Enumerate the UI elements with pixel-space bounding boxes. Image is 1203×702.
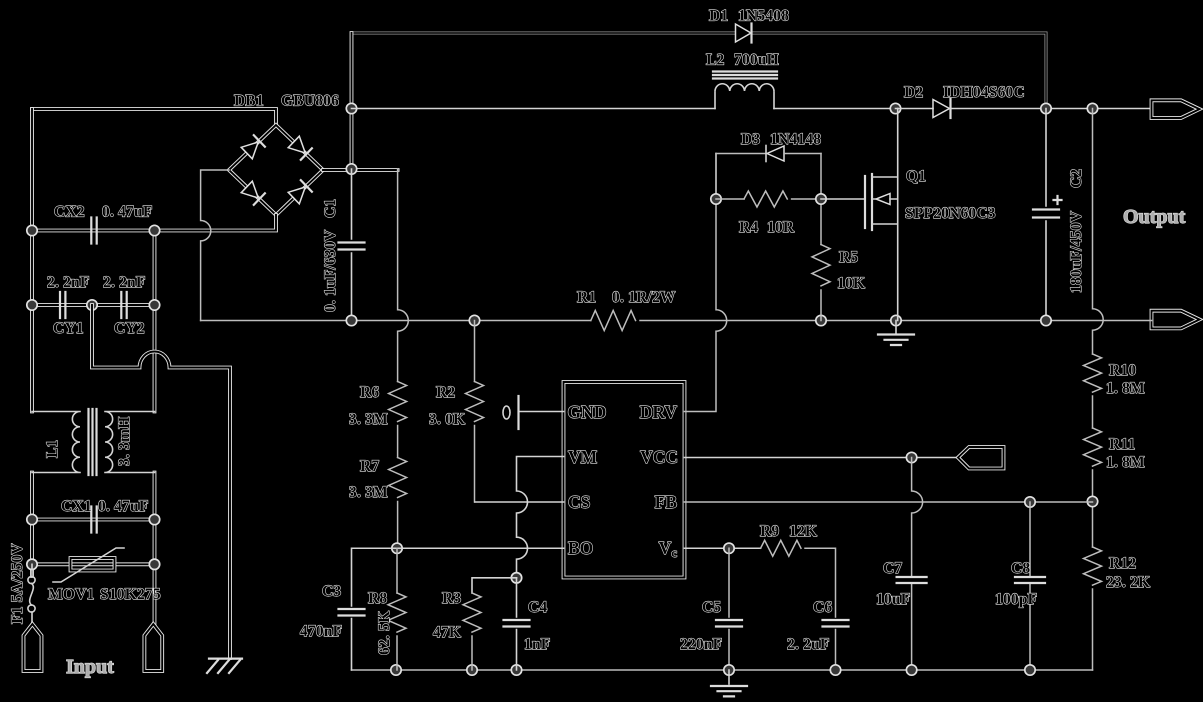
capacitor CY2 (121, 292, 126, 318)
wire R9 to C6 (805, 548, 836, 617)
wire R8 top (396, 548, 398, 593)
label SPP20N60C3 (905, 205, 996, 222)
wire VM net (517, 457, 564, 578)
node CX2 right (149, 225, 159, 235)
label R3 value (433, 624, 461, 641)
label L1 (rotated) (44, 440, 61, 459)
ground bar at GND pin (503, 396, 519, 429)
svg-text:3. 3M: 3. 3M (349, 411, 388, 428)
label C5 value (680, 636, 722, 653)
bridge diode (bottom-right) (288, 180, 312, 204)
label R11 value (1106, 454, 1145, 471)
svg-text:0. 1R/2W: 0. 1R/2W (612, 289, 676, 306)
wire C7 branch (912, 458, 923, 671)
label R1 value (612, 289, 676, 306)
svg-text:100pF: 100pF (995, 591, 1037, 608)
wire drain to D2 (896, 108, 934, 110)
label F1 5A/250V (rotated) (9, 543, 26, 624)
label R9 value (789, 523, 817, 540)
wire top rail to D1 (352, 32, 736, 35)
node rect+ mid (346, 164, 356, 174)
label CX1 value (98, 498, 149, 515)
node rect+ top (346, 103, 356, 113)
capacitor CX1 (91, 507, 96, 533)
wire left rail lower (30, 473, 34, 577)
svg-text:C3: C3 (322, 583, 341, 600)
label DB1 (234, 93, 264, 110)
pin CS label (568, 492, 590, 512)
svg-text:3. 3M: 3. 3M (349, 484, 388, 501)
label D3 (741, 131, 760, 148)
wire FB net (685, 501, 1093, 503)
svg-text:Q1: Q1 (906, 168, 926, 185)
pin VM label (568, 447, 598, 467)
svg-text:0. 47uF: 0. 47uF (102, 204, 153, 221)
svg-text:10uF: 10uF (876, 591, 910, 608)
label R10 (1109, 362, 1136, 379)
wire CX2 row (32, 229, 155, 233)
svg-text:Input: Input (66, 656, 114, 678)
node CY mid (87, 300, 97, 310)
svg-text:2. 2uF: 2. 2uF (787, 636, 830, 653)
svg-text:R11: R11 (1109, 436, 1135, 453)
wire DRV riser (685, 154, 727, 412)
label C3 value (300, 623, 342, 640)
inductor L1 left winding (32, 412, 80, 473)
svg-text:R7: R7 (360, 458, 379, 475)
label R4 (739, 219, 758, 236)
wire bus right (640, 320, 1152, 322)
wire GND pin (520, 411, 564, 413)
wire CX1 row (32, 518, 155, 522)
label L1 value 3.3mH (rotated) (116, 417, 133, 466)
node R4 left (711, 194, 721, 204)
wire Q1 drain-source (897, 109, 899, 321)
wire C6 bottom (835, 630, 837, 671)
ground at Q1 source (878, 321, 914, 346)
node bottom C6 (830, 665, 840, 675)
resistor R3 (463, 593, 481, 632)
diode D1 (736, 24, 752, 43)
wire C8 branch (1029, 502, 1031, 670)
svg-text:R2: R2 (436, 384, 455, 401)
svg-text:220nF: 220nF (680, 636, 722, 653)
wire divider top (398, 169, 409, 382)
node Q1 drain (890, 103, 900, 113)
node bus C1 (346, 315, 356, 325)
capacitor C1 (339, 243, 365, 250)
wire divider riser (1093, 109, 1104, 355)
diode D3 (766, 146, 784, 162)
resistor R10 (1084, 354, 1102, 392)
ground chassis (207, 659, 242, 673)
node CY left (27, 300, 37, 310)
label C7 (883, 560, 902, 577)
label C2 (rotated) (1068, 169, 1085, 188)
wire R6-R7 (397, 426, 399, 458)
node bus R2 (469, 315, 479, 325)
svg-text:R12: R12 (1109, 555, 1136, 572)
label Q1 (906, 168, 926, 185)
label 1N5408 (738, 8, 789, 25)
svg-text:C8: C8 (1011, 560, 1030, 577)
svg-text:47K: 47K (433, 624, 461, 641)
svg-text:C2: C2 (1068, 169, 1085, 188)
capacitor C4 (504, 620, 530, 627)
svg-text:Output: Output (1123, 206, 1186, 228)
op-amp controller U1 box (564, 382, 685, 578)
wire node to R3 (472, 578, 517, 593)
node bus R5 (816, 315, 826, 325)
svg-text:VCC: VCC (640, 447, 678, 467)
bridge diode (left-bottom) (241, 181, 265, 205)
wire bottom bus (352, 669, 1093, 671)
label R8 (368, 590, 387, 607)
svg-text:1N5408: 1N5408 (738, 8, 789, 25)
wire D1 to corner (752, 33, 1047, 109)
svg-text:CX1: CX1 (61, 498, 92, 515)
svg-text:2. 2nF: 2. 2nF (103, 274, 146, 291)
node FB-C8 (1025, 497, 1035, 507)
label CY1 value (47, 274, 90, 291)
svg-text:470nF: 470nF (300, 623, 342, 640)
svg-text:D2: D2 (904, 84, 923, 101)
svg-text:D1: D1 (709, 8, 728, 25)
label D2 (904, 84, 923, 101)
label R1 (577, 289, 596, 306)
svg-text:FB: FB (655, 492, 678, 512)
wire left rail upper (30, 109, 34, 412)
capacitor C2 (1033, 210, 1059, 218)
node Vc-C5 (724, 543, 734, 553)
label D1 (709, 8, 728, 25)
label R4 value (767, 219, 795, 236)
node R4 right (816, 194, 826, 204)
label GBU806 (281, 93, 339, 110)
svg-text:R9: R9 (760, 523, 779, 540)
label R6 value (349, 411, 388, 428)
node MOV left (27, 559, 37, 569)
svg-text:R1: R1 (577, 289, 596, 306)
label Output (1123, 206, 1186, 228)
label C2 value (rotated) (1068, 210, 1085, 293)
svg-text:3. 3mH: 3. 3mH (116, 417, 133, 466)
wire R12 bottom (1092, 589, 1094, 670)
node VCC-C7 (906, 452, 916, 462)
resistor R8 (388, 593, 406, 632)
label L2 (706, 52, 725, 69)
terminal input L (24, 624, 42, 671)
svg-text:R6: R6 (360, 384, 379, 401)
node CX1 left (27, 514, 37, 524)
node MOV right (149, 559, 159, 569)
node output+ C2 (1041, 103, 1051, 113)
wire BO net (397, 547, 564, 549)
svg-text:1nF: 1nF (524, 636, 550, 653)
node CY right (149, 300, 159, 310)
polarity + for C2 (1054, 196, 1062, 204)
wire rect+ to L2 (352, 108, 716, 110)
wire right rail lower (153, 473, 157, 625)
svg-text:VM: VM (568, 447, 598, 467)
inductor L1 right winding (105, 412, 155, 473)
node VM-C4-R3 (511, 573, 521, 583)
wire CS net (475, 501, 564, 503)
svg-text:S10K275: S10K275 (100, 586, 161, 603)
capacitor C3 (339, 609, 365, 616)
label CY2 value (103, 274, 146, 291)
pin VCC label (640, 447, 678, 467)
label C7 value (876, 591, 910, 608)
wire R10-R11 (1092, 396, 1094, 428)
diode D2 (933, 99, 951, 118)
resistor R11 (1084, 428, 1102, 466)
label R12 (1109, 555, 1136, 572)
wire R5 bottom (820, 290, 822, 321)
svg-text:F1 5A/250V: F1 5A/250V (9, 543, 26, 624)
svg-text:DRV: DRV (640, 402, 678, 422)
wire bridge right vertex to node (323, 168, 398, 172)
wire C5 branch (728, 548, 730, 670)
bridge diode (left-top) (241, 135, 265, 159)
bridge rectifier DB1 outline (229, 125, 323, 215)
wire C1 branch (351, 169, 353, 321)
svg-text:180uF/450V: 180uF/450V (1068, 210, 1085, 293)
wire R7 to BO node (397, 502, 399, 549)
svg-text:0. 1uF/630V: 0. 1uF/630V (322, 229, 339, 312)
svg-text:C5: C5 (702, 599, 721, 616)
fuse F1 (28, 564, 35, 624)
node bottom C7 (906, 665, 916, 675)
wire R4 right stub (792, 198, 821, 200)
label R7 (360, 458, 379, 475)
terminal output + (1152, 100, 1200, 118)
wire bridge minus down-around (201, 170, 229, 321)
pin GND label (568, 402, 607, 422)
wire right rail upper (153, 231, 157, 412)
wire CY row (32, 303, 155, 307)
node bus Q1 source (891, 315, 901, 325)
wire C2 branch (1045, 109, 1047, 321)
svg-text:1N4148: 1N4148 (770, 131, 821, 148)
node bottom R3 (467, 665, 477, 675)
svg-text:10R: 10R (767, 219, 795, 236)
wire D3 top right (784, 153, 821, 155)
capacitor C5 (716, 620, 742, 627)
capacitor CX2 (91, 218, 96, 244)
node BO junction (392, 543, 402, 553)
terminal input N (144, 624, 162, 671)
wire D3 left leg (715, 154, 717, 200)
svg-text:10K: 10K (837, 275, 865, 292)
wire R2 to CS (474, 426, 476, 503)
wire gate (821, 198, 865, 200)
wire D2 to output (951, 108, 1152, 110)
label C5 (702, 599, 721, 616)
wire CY mid to chassis ground (92, 305, 230, 658)
label R7 value (349, 484, 388, 501)
label R2 (436, 384, 455, 401)
node bottom C4 (511, 665, 521, 675)
wire R3 bottom (471, 636, 473, 670)
bridge diode (top-right) (288, 136, 312, 160)
resistor R2 (466, 382, 484, 422)
node bottom C5 (724, 665, 734, 675)
wire R2 top (474, 321, 476, 382)
svg-text:23. 2K: 23. 2K (1106, 574, 1150, 591)
svg-text:DB1: DB1 (234, 93, 264, 110)
wire bridge AC bottom to CX2 (155, 215, 277, 231)
svg-text:CX2: CX2 (54, 204, 85, 221)
svg-text:IDH04S60C: IDH04S60C (943, 84, 1025, 101)
label CX2 value (102, 204, 153, 221)
node FB divider (1087, 496, 1097, 506)
wire MOV row (32, 562, 155, 566)
resistor R7 (389, 458, 407, 498)
svg-text:BO: BO (568, 538, 593, 558)
svg-text:R3: R3 (442, 590, 461, 607)
node CX2 left (27, 225, 37, 235)
transistor Q1 contacts (872, 177, 898, 224)
label C3 (322, 583, 341, 600)
wire VCC net (685, 457, 959, 459)
label 1N4148 (770, 131, 821, 148)
label C6 value (787, 636, 830, 653)
svg-text:R5: R5 (839, 249, 858, 266)
svg-text:CY1: CY1 (53, 320, 84, 337)
label R12 value (1106, 574, 1150, 591)
varistor MOV1 diagonal (53, 548, 124, 582)
svg-text:D3: D3 (741, 131, 760, 148)
label R3 (442, 590, 461, 607)
label R10 value (1106, 380, 1145, 397)
svg-text:GBU806: GBU806 (281, 93, 339, 110)
wire rect+ riser (350, 33, 354, 169)
svg-text:C7: C7 (883, 560, 902, 577)
label C6 (813, 599, 832, 616)
svg-text:CY2: CY2 (114, 320, 145, 337)
node CX1 right (149, 514, 159, 524)
svg-text:12K: 12K (789, 523, 817, 540)
capacitor C6 (823, 620, 849, 627)
svg-text:L1: L1 (44, 440, 61, 459)
node bottom R8 (391, 665, 401, 675)
label 700uH (734, 52, 779, 69)
label CX1 (61, 498, 92, 515)
pin DRV label (640, 402, 678, 422)
wire Vc net (685, 547, 761, 549)
resistor R9 (761, 540, 801, 556)
label Input (66, 656, 114, 678)
svg-text:C1: C1 (322, 199, 339, 218)
pin Vc label (659, 538, 678, 560)
wire R8 bottom (396, 636, 398, 670)
svg-text:MOV1: MOV1 (48, 586, 94, 603)
wire D3 top left (716, 153, 766, 155)
svg-text:62. 5K: 62. 5K (376, 611, 393, 655)
node bus C2 (1041, 315, 1051, 325)
capacitor C8 (1015, 577, 1045, 583)
svg-text:1. 8M: 1. 8M (1106, 380, 1145, 397)
capacitor C7 (897, 577, 927, 583)
label S10K275 (100, 586, 161, 603)
pin FB label (655, 492, 678, 512)
svg-text:3. 0K: 3. 0K (429, 411, 465, 428)
label C8 (1011, 560, 1030, 577)
wire C4 branch (516, 578, 518, 670)
svg-text:GND: GND (568, 402, 607, 422)
label CX2 (54, 204, 85, 221)
wire AC line top-left (32, 109, 276, 125)
label R6 (360, 384, 379, 401)
transistor Q1 channel (871, 174, 873, 230)
resistor R4 (744, 191, 787, 207)
terminal VCC port (958, 447, 1004, 469)
label R8 value (rotated) (376, 611, 393, 655)
inductor L2 (713, 72, 777, 109)
svg-text:C6: C6 (813, 599, 832, 616)
svg-text:2. 2nF: 2. 2nF (47, 274, 90, 291)
label R5 (839, 249, 858, 266)
label R5 value (837, 275, 865, 292)
label C8 value (995, 591, 1037, 608)
node output+ divider (1087, 103, 1097, 113)
resistor R1 (591, 311, 636, 331)
wire C3 branch (352, 548, 398, 670)
label C4 value (524, 636, 550, 653)
terminal output - (1152, 311, 1200, 329)
transistor Q1 body arrow (872, 194, 898, 205)
svg-text:L2: L2 (706, 52, 725, 69)
wire D3 right leg (820, 154, 822, 245)
wire L2 to Q1 drain (774, 108, 896, 110)
resistor R12 (1084, 547, 1102, 585)
wire R11 to FB node (1092, 470, 1094, 547)
label R11 (1109, 436, 1135, 453)
label MOV1 (48, 586, 94, 603)
label C1 value (rotated) (322, 229, 339, 312)
svg-text:CS: CS (568, 492, 590, 512)
pin BO label (568, 538, 593, 558)
inductor L1 core (89, 409, 97, 475)
wire R4 left stub (716, 198, 744, 200)
transistor Q1 gate bar (864, 176, 866, 228)
svg-text:700uH: 700uH (734, 52, 779, 69)
svg-text:SPP20N60C3: SPP20N60C3 (905, 205, 996, 222)
label IDH04S60C (943, 84, 1025, 101)
svg-text:R8: R8 (368, 590, 387, 607)
label R2 value (429, 411, 465, 428)
label CY2 (114, 320, 145, 337)
svg-text:C4: C4 (528, 599, 547, 616)
node bottom C8 (1025, 665, 1035, 675)
svg-text:R10: R10 (1109, 362, 1136, 379)
resistor R5 (812, 245, 830, 286)
varistor MOV1 body (71, 558, 115, 571)
wire bus left (201, 320, 591, 322)
resistor R6 (389, 382, 407, 422)
svg-text:0. 47uF: 0. 47uF (98, 498, 149, 515)
label C1 (rotated) (322, 199, 339, 218)
label CY1 (53, 320, 84, 337)
label C4 (528, 599, 547, 616)
ground main (711, 670, 747, 696)
svg-text:1. 8M: 1. 8M (1106, 454, 1145, 471)
capacitor CY1 (60, 292, 65, 318)
svg-text:R4: R4 (739, 219, 758, 236)
label R9 (760, 523, 779, 540)
